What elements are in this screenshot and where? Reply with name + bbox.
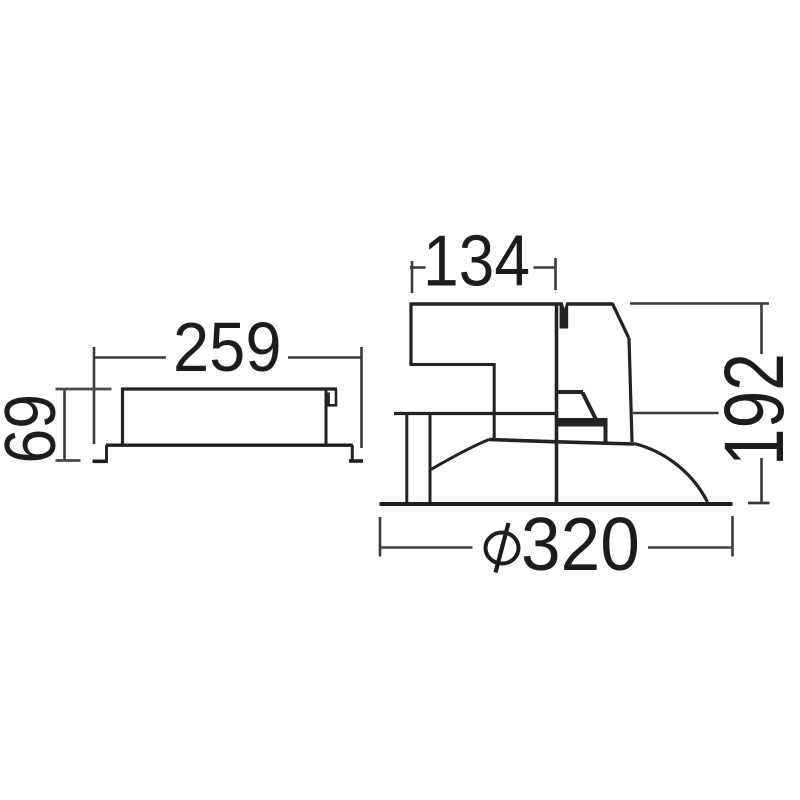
dimension symbol phi (oval) bbox=[486, 533, 519, 564]
notch tab (dark pendant) bbox=[560, 302, 569, 328]
housing top line right of notch bbox=[568, 302, 613, 305]
extension line top of 69 bbox=[56, 388, 112, 391]
box right side bbox=[325, 389, 328, 445]
flange right foot bbox=[349, 459, 363, 463]
box left side bbox=[121, 388, 124, 446]
bracket vertical 2 bbox=[429, 415, 432, 502]
ceiling line right segment bbox=[633, 412, 719, 415]
dimension line phi320 right segment bbox=[648, 546, 732, 549]
svg-text:69: 69 bbox=[0, 394, 71, 464]
reflector top line bbox=[489, 440, 634, 445]
dimension line 134 left segment bbox=[410, 266, 426, 269]
dimension line 192 lower segment bbox=[760, 458, 763, 503]
ceiling line left segment bbox=[394, 412, 557, 415]
svg-text:320: 320 bbox=[521, 502, 640, 586]
extension line top of 192 bbox=[630, 302, 769, 305]
extension tick right of 134 bbox=[554, 258, 557, 290]
mounting flange plate bbox=[106, 444, 353, 447]
svg-text:134: 134 bbox=[423, 222, 530, 302]
housing left step bbox=[410, 363, 494, 366]
tick bottom of 192 bbox=[748, 502, 770, 505]
extension tick left of 134 bbox=[411, 261, 414, 293]
flange right drop bbox=[351, 445, 354, 461]
latch diagonal bbox=[583, 393, 597, 421]
extension line left of phi320 bbox=[379, 517, 382, 557]
bracket vertical 1 bbox=[405, 415, 408, 502]
dimension line 192 upper segment bbox=[760, 304, 763, 354]
extension line left of 259 bbox=[93, 347, 96, 444]
inner vertical below step bbox=[493, 363, 496, 440]
dimension line 259 right segment bbox=[288, 356, 362, 359]
flange left foot bbox=[93, 459, 108, 463]
svg-text:192: 192 bbox=[707, 353, 800, 466]
housing left side bbox=[409, 303, 412, 366]
terminal hook at box top right bbox=[329, 389, 336, 405]
reflector right curve bbox=[634, 444, 708, 503]
dimension line 259 left segment bbox=[94, 356, 166, 359]
dimension line 134 right segment bbox=[534, 266, 557, 269]
latch right vertical bbox=[604, 426, 608, 442]
reflector left curve bbox=[430, 440, 489, 471]
dimension line 69 bbox=[63, 389, 66, 461]
latch top line bbox=[557, 390, 583, 394]
housing top line bbox=[410, 302, 562, 306]
flange left drop bbox=[105, 445, 108, 461]
latch bar bbox=[557, 418, 608, 427]
extension line right of phi320 bbox=[731, 516, 734, 557]
centre vertical line bbox=[555, 303, 559, 503]
notch tab white split bbox=[563, 302, 567, 309]
housing top right chamfer bbox=[612, 303, 629, 338]
tick bottom of 69 bbox=[56, 459, 81, 462]
trim flange line bbox=[380, 502, 733, 506]
extension line right of 259 bbox=[360, 347, 363, 448]
dimension symbol phi (slash) bbox=[496, 523, 509, 573]
svg-text:259: 259 bbox=[173, 308, 282, 386]
box top line bbox=[123, 387, 338, 390]
dimension line phi320 left segment bbox=[381, 546, 473, 549]
housing right side bbox=[629, 338, 632, 442]
